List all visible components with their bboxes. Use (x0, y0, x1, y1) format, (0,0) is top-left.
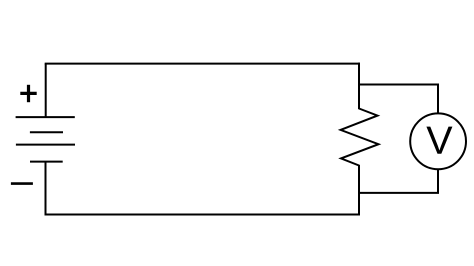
voltmeter label V (426, 127, 452, 154)
wire: voltmeter top branch (359, 85, 438, 115)
wire: battery positive lead to top-left corner (45, 64, 47, 118)
wire: top horizontal (45, 63, 360, 65)
polarity label + (20, 85, 36, 102)
wire: battery negative lead to bottom-left corner (45, 162, 47, 216)
battery B1 (16, 117, 75, 162)
wire: voltmeter bottom branch (359, 169, 438, 193)
wire: bottom horizontal (45, 214, 361, 216)
wire: right vertical upper (top wire to resistor) (358, 63, 360, 110)
wire: right vertical lower (resistor to bottom wire) (358, 165, 360, 216)
resistor R1 (341, 109, 379, 166)
polarity label - (11, 182, 33, 185)
voltmeter M1 (410, 113, 466, 169)
